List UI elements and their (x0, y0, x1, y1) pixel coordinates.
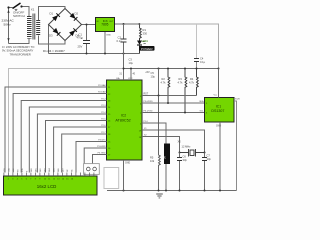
MCU left pin labels (97, 84, 106, 155)
svg-text:POWER: POWER (141, 47, 153, 51)
LCD data bus staircase wires (5, 87, 107, 173)
svg-text:VCC: VCC (128, 78, 133, 80)
svg-text:SWITCH: SWITCH (13, 14, 25, 18)
MCU inside pin numbers right (139, 96, 142, 139)
capacitor C5 reset (151, 69, 159, 96)
svg-text:0.1µ: 0.1µ (200, 60, 206, 64)
svg-text:4.7k: 4.7k (161, 81, 167, 85)
svg-text:AT89C52: AT89C52 (115, 119, 130, 123)
svg-text:+: + (81, 36, 83, 40)
wire SDA line (142, 102, 205, 104)
wire mains top to switch (9, 7, 13, 9)
svg-text:330: 330 (143, 32, 148, 36)
svg-text:Vcc: Vcc (214, 95, 217, 97)
svg-text:RST: RST (144, 94, 149, 96)
svg-text:IC1: IC1 (216, 104, 221, 108)
capacitor C7 (202, 153, 211, 191)
capacitor C3 label (129, 58, 134, 66)
regulator IC3 7805 (96, 18, 115, 37)
svg-text:D2: D2 (75, 12, 79, 16)
svg-text:DB4: DB4 (49, 168, 51, 172)
wire MCU GND pin 20 (124, 160, 131, 191)
svg-text:DB0: DB0 (31, 168, 33, 172)
svg-text:VSS: VSS (4, 167, 6, 172)
resistor R2 pullup SDA (161, 69, 170, 104)
svg-text:SDA: SDA (199, 100, 204, 103)
svg-text:0 / 230V AC PRIMARY TO: 0 / 230V AC PRIMARY TO (2, 45, 34, 49)
wire MCU RST line (142, 94, 197, 137)
wire secondary top to bridge top vertex (39, 7, 66, 21)
wire XTAL2 (142, 137, 180, 153)
junction dots power section (86, 23, 141, 55)
MCU pin EA to rail (117, 69, 124, 81)
svg-text:D1-D4 = 1N4007: D1-D4 = 1N4007 (43, 49, 65, 53)
svg-text:10µ: 10µ (129, 61, 134, 65)
svg-text:C6: C6 (183, 155, 187, 159)
wire DS1307 VCC (214, 69, 219, 98)
svg-text:R4: R4 (190, 77, 194, 81)
svg-text:33p: 33p (207, 157, 212, 161)
capacitor C6 (177, 153, 187, 191)
wire P1.0 to battery (142, 123, 166, 144)
battery BT1 3V (163, 144, 170, 191)
svg-text:R/W: R/W (22, 168, 24, 172)
svg-text:DB1: DB1 (35, 168, 37, 172)
svg-text:GND: GND (216, 126, 221, 128)
svg-text:GND: GND (106, 35, 111, 37)
diode D2 (70, 13, 78, 21)
transformer X1 (27, 8, 40, 40)
capacitor C4 (194, 24, 206, 69)
svg-text:33p: 33p (183, 158, 188, 162)
svg-text:VDD: VDD (8, 167, 10, 172)
wire bridge right vertex to 7805 IN (82, 24, 96, 26)
svg-text:X1: X1 (31, 8, 35, 12)
wire DS1307 SQW pin (234, 99, 240, 191)
wire 7805 OUT to +5V (115, 23, 140, 25)
svg-text:DB3: DB3 (44, 168, 46, 172)
svg-text:GND: GND (125, 163, 130, 165)
LCD pin ticks (4, 173, 94, 177)
switch S1 (7, 3, 24, 18)
LED1 power indicator (137, 39, 155, 54)
svg-text:TRANSFORMER: TRANSFORMER (10, 52, 31, 56)
MCU IC2 AT89C52 (107, 80, 143, 160)
crystal X2 (178, 139, 206, 156)
svg-text:DB6: DB6 (58, 168, 60, 172)
svg-text:R5: R5 (150, 156, 154, 160)
svg-text:DB2: DB2 (40, 168, 42, 172)
wire XTAL1 (142, 130, 205, 153)
wire 7805 GND down (104, 32, 106, 54)
RTC IC1 DS1307 (199, 98, 234, 128)
svg-text:DB7: DB7 (62, 168, 64, 172)
svg-text:IC2: IC2 (121, 114, 126, 118)
LCD module (4, 176, 98, 195)
svg-text:C5: C5 (151, 71, 155, 75)
svg-text:D1: D1 (50, 12, 54, 16)
svg-text:D3: D3 (49, 34, 53, 38)
svg-text:DB5: DB5 (53, 168, 55, 172)
diode D4 (69, 28, 77, 36)
LCD pin labels row (4, 167, 74, 172)
svg-text:+5V: +5V (145, 71, 150, 74)
svg-text:12 MHz: 12 MHz (182, 144, 192, 148)
svg-text:LED1: LED1 (142, 40, 149, 43)
preset box (104, 168, 119, 189)
svg-text:3V: 3V (163, 156, 166, 159)
svg-text:DS1307: DS1307 (211, 109, 224, 113)
svg-text:7805: 7805 (101, 23, 108, 27)
wire switch to primary top (22, 7, 30, 17)
svg-text:C2: C2 (118, 36, 122, 40)
ground bus (49, 53, 140, 55)
svg-text:9V, 500mA SECONDARY: 9V, 500mA SECONDARY (2, 49, 34, 53)
svg-text:50Hz: 50Hz (4, 23, 12, 27)
wire bridge left vertex to ground bus (48, 25, 50, 54)
capacitor C2 (117, 24, 127, 69)
wire 230V left vertical (8, 8, 10, 44)
svg-text:SQW: SQW (235, 99, 240, 101)
svg-text:10k: 10k (150, 159, 155, 163)
svg-text:4.7k: 4.7k (189, 81, 195, 85)
capacitor C1 (77, 25, 91, 54)
wire SCL line (142, 112, 205, 114)
connector box with terminals (84, 164, 100, 175)
bridge rectifier diamond (49, 9, 82, 41)
bottom ground rail (107, 190, 237, 192)
diode D3 (53, 28, 61, 36)
svg-text:C3: C3 (129, 58, 133, 62)
resistor R1 (140, 24, 148, 39)
resistor R5 reset pulldown (150, 96, 160, 191)
wire DS1307 GND down (219, 122, 221, 191)
svg-text:C7: C7 (207, 154, 211, 158)
wire secondary bottom to bridge bottom vertex (39, 36, 66, 45)
junction dots rail (123, 68, 220, 70)
svg-text:16x2 LCD: 16x2 LCD (37, 184, 57, 189)
wire +5V feed to LCD VDD (faint) (9, 69, 124, 173)
svg-text:OUT: OUT (109, 21, 114, 23)
svg-text:4.7k: 4.7k (178, 81, 184, 85)
svg-text:R2: R2 (162, 77, 166, 81)
resistor R4 pullup RST (189, 69, 198, 96)
MCU inside pin numbers left (108, 87, 111, 156)
svg-text:X2: X2 (178, 139, 182, 143)
ground symbol bottom (156, 194, 163, 198)
svg-text:R3: R3 (179, 77, 183, 81)
svg-text:10µ: 10µ (151, 74, 156, 78)
wire mains bottom to primary (9, 39, 30, 44)
junction dots bottom rail (123, 190, 222, 192)
+5V rail to right (light) (140, 24, 219, 69)
230V AC source arrows and label (2, 10, 15, 41)
resistor R3 pullup SCL (178, 69, 187, 113)
svg-text:C4: C4 (200, 57, 204, 61)
svg-text:0.1µ: 0.1µ (117, 39, 123, 43)
Vcc distribution rail (124, 68, 219, 70)
svg-text:R1: R1 (143, 28, 147, 32)
diode D1 (52, 13, 60, 21)
LCD pin numbers row (3, 179, 74, 181)
svg-text:25V: 25V (78, 45, 83, 49)
transformer caption (2, 45, 34, 57)
MCU pin VCC to rail (128, 69, 136, 81)
